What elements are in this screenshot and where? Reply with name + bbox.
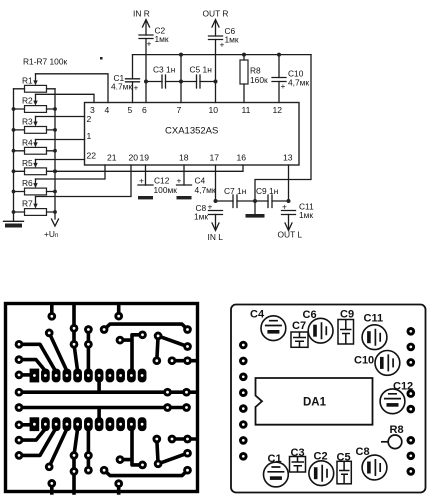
- svg-text:2: 2: [87, 114, 92, 124]
- svg-text:R8: R8: [390, 424, 404, 436]
- svg-text:1мк: 1мк: [225, 35, 239, 45]
- svg-text:C8: C8: [356, 446, 370, 458]
- svg-text:C3 1н: C3 1н: [153, 65, 176, 75]
- svg-text:C5: C5: [337, 452, 351, 464]
- svg-text:R1: R1: [22, 76, 33, 86]
- svg-text:R3: R3: [22, 117, 33, 127]
- svg-text:R7: R7: [22, 199, 33, 209]
- svg-text:R6: R6: [22, 178, 33, 188]
- svg-text:22: 22: [87, 151, 97, 161]
- svg-text:R8: R8: [250, 66, 261, 76]
- svg-text:20: 20: [129, 153, 139, 163]
- svg-text:4,7мк: 4,7мк: [195, 185, 216, 195]
- svg-text:CXA1352AS: CXA1352AS: [165, 126, 218, 137]
- svg-text:C11: C11: [364, 313, 384, 325]
- svg-text:C12: C12: [393, 381, 413, 393]
- svg-text:+Uп: +Uп: [44, 229, 58, 239]
- svg-text:4: 4: [105, 105, 110, 115]
- svg-text:+: +: [208, 202, 213, 212]
- svg-text:18: 18: [179, 153, 189, 163]
- svg-text:OUT L: OUT L: [278, 230, 303, 240]
- svg-text:R1-R7 100к: R1-R7 100к: [23, 57, 68, 67]
- svg-text:5: 5: [128, 105, 133, 115]
- svg-text:C4: C4: [250, 309, 265, 321]
- svg-text:+: +: [139, 176, 144, 186]
- svg-text:160к: 160к: [250, 75, 268, 85]
- svg-text:IN L: IN L: [208, 232, 224, 242]
- svg-text:6: 6: [142, 105, 147, 115]
- svg-text:+: +: [147, 39, 152, 49]
- svg-text:+: +: [281, 81, 286, 91]
- svg-text:C2: C2: [314, 451, 328, 463]
- svg-text:12: 12: [273, 105, 283, 115]
- svg-text:16: 16: [237, 153, 247, 163]
- svg-text:+: +: [177, 176, 182, 186]
- svg-text:1мк: 1мк: [155, 34, 169, 44]
- svg-text:19: 19: [140, 153, 150, 163]
- svg-text:R4: R4: [22, 138, 33, 148]
- svg-text:1: 1: [87, 131, 92, 141]
- svg-text:11: 11: [242, 105, 251, 115]
- svg-text:17: 17: [210, 153, 220, 163]
- svg-text:1мк: 1мк: [194, 212, 208, 222]
- svg-text:4,7мк: 4,7мк: [288, 78, 309, 88]
- svg-text:C7 1н: C7 1н: [224, 186, 247, 196]
- svg-text:C10: C10: [354, 355, 374, 367]
- svg-text:4.7мк: 4.7мк: [111, 82, 132, 92]
- svg-text:1мк: 1мк: [299, 210, 313, 220]
- svg-text:+: +: [134, 83, 139, 93]
- svg-text:OUT R: OUT R: [203, 9, 229, 19]
- svg-text:10: 10: [209, 105, 219, 115]
- svg-text:IN R: IN R: [133, 9, 150, 19]
- svg-text:C3: C3: [291, 447, 305, 459]
- svg-text:C9 1н: C9 1н: [256, 186, 279, 196]
- svg-text:7: 7: [177, 105, 182, 115]
- svg-text:C9: C9: [340, 309, 354, 321]
- svg-text:R2: R2: [22, 96, 33, 106]
- svg-text:C5 1н: C5 1н: [190, 65, 213, 75]
- svg-text:100мк: 100мк: [154, 185, 178, 195]
- svg-text:C1: C1: [268, 453, 282, 465]
- svg-text:13: 13: [283, 153, 293, 163]
- svg-text:21: 21: [107, 153, 117, 163]
- svg-text:DA1: DA1: [303, 397, 327, 409]
- svg-text:+: +: [220, 40, 225, 50]
- svg-text:+: +: [282, 202, 287, 212]
- svg-text:C7: C7: [292, 320, 306, 332]
- svg-text:R5: R5: [22, 158, 33, 168]
- svg-text:C6: C6: [303, 309, 317, 321]
